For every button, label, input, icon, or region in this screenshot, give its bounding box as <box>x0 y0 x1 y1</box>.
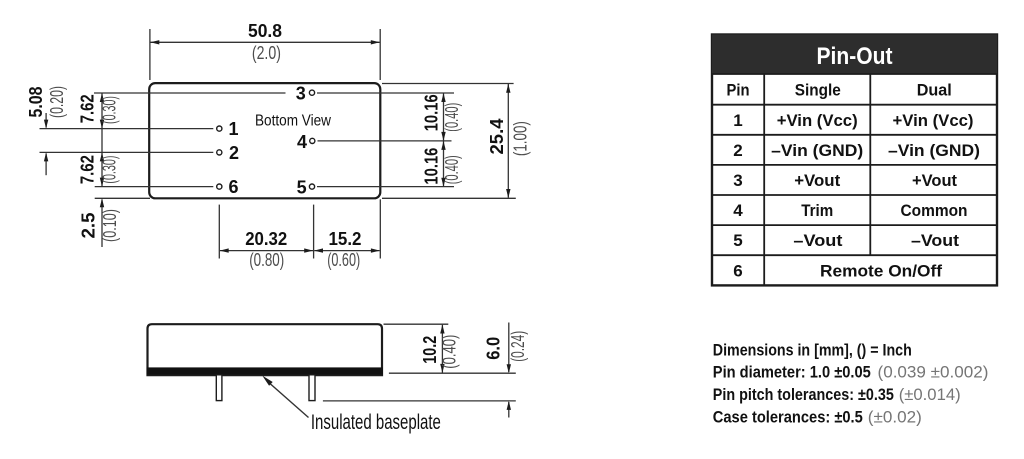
dim 20.32 extension line left <box>218 205 220 259</box>
dim 6.0 upper tail <box>508 323 510 373</box>
dim 15.2 extension line right <box>379 199 381 258</box>
dim 10.16 upper line <box>443 93 445 141</box>
svg-text:–Vin (GND): –Vin (GND) <box>888 141 980 160</box>
pin 2 hole <box>217 150 222 155</box>
pin 4 hole <box>310 138 315 143</box>
svg-text:Remote On/Off: Remote On/Off <box>820 261 942 280</box>
svg-text:Dual: Dual <box>917 80 952 99</box>
svg-text:4: 4 <box>297 132 307 152</box>
baseplate bottom extension line <box>389 372 516 374</box>
svg-text:Single: Single <box>795 80 841 99</box>
svg-text:25.4: 25.4 <box>487 119 507 155</box>
dim 20.32 line <box>220 250 313 252</box>
svg-text:50.8: 50.8 <box>248 21 282 41</box>
dim 15.2 line <box>314 250 380 252</box>
svg-text:–Vin (GND): –Vin (GND) <box>771 141 863 160</box>
case outline (side view) <box>148 324 383 375</box>
svg-text:1: 1 <box>228 119 238 139</box>
table column divider 1 <box>763 74 765 285</box>
pin left (side view) <box>216 375 222 401</box>
svg-text:+Vout: +Vout <box>912 171 957 190</box>
dim 5.08 line upper tail <box>45 113 47 128</box>
dim 50.8 extension line left <box>149 29 151 80</box>
table column divider 2 <box>869 74 871 255</box>
dim 5.08 line lower tail <box>45 154 47 176</box>
svg-text:5: 5 <box>733 231 742 250</box>
svg-text:Common: Common <box>901 201 968 220</box>
svg-text:Pin diameter: 1.0 ±0.05: Pin diameter: 1.0 ±0.05 <box>713 363 871 382</box>
table row line 3 <box>712 164 997 166</box>
svg-text:(0.60): (0.60) <box>327 250 360 270</box>
dim 7.62 lower line <box>101 152 103 186</box>
svg-text:6: 6 <box>733 261 742 280</box>
svg-text:10.16: 10.16 <box>422 94 442 131</box>
svg-text:2: 2 <box>229 143 239 163</box>
svg-text:(0.40): (0.40) <box>442 103 462 132</box>
svg-text:+Vout: +Vout <box>794 171 840 190</box>
pin 3 row line <box>94 92 286 94</box>
dim 25.4 extension line bottom <box>382 197 516 199</box>
dim 25.4 extension line top <box>382 83 514 85</box>
bottom edge extension line left <box>95 197 150 199</box>
svg-text:6: 6 <box>228 177 238 197</box>
svg-text:(1.00): (1.00) <box>511 121 531 156</box>
svg-text:Pin pitch tolerances: ±0.35: Pin pitch tolerances: ±0.35 <box>713 385 894 404</box>
pin 1 hole <box>217 126 222 131</box>
svg-text:(0.24): (0.24) <box>508 331 528 362</box>
svg-text:3: 3 <box>733 171 742 190</box>
dim 10.2 extension line top <box>384 323 449 325</box>
svg-text:5.08: 5.08 <box>26 87 46 118</box>
pin 5 hole <box>309 184 314 189</box>
svg-text:Insulated baseplate: Insulated baseplate <box>311 411 441 434</box>
dim line between pins 1 and 2 <box>101 129 103 153</box>
svg-text:(0.10): (0.10) <box>100 209 120 242</box>
svg-text:Dimensions in [mm], () = Inch: Dimensions in [mm], () = Inch <box>713 341 912 360</box>
dim 25.4 line <box>507 84 509 198</box>
pin right (side view) <box>309 375 315 401</box>
svg-text:Bottom View: Bottom View <box>255 113 331 130</box>
svg-text:1: 1 <box>733 111 742 130</box>
svg-text:2.5: 2.5 <box>79 213 99 239</box>
dim 10.16 lower line <box>443 141 445 187</box>
svg-text:(0.30): (0.30) <box>100 156 120 184</box>
pin 4 row line <box>318 140 452 142</box>
svg-text:5: 5 <box>297 177 307 197</box>
table row line header <box>712 73 997 75</box>
pin 3 hole <box>309 90 314 95</box>
table row line 5 <box>712 224 997 226</box>
svg-text:–Vout: –Vout <box>911 231 959 250</box>
table row line 2 <box>712 134 997 136</box>
svg-text:+Vin (Vcc): +Vin (Vcc) <box>893 111 974 130</box>
svg-text:(0.40): (0.40) <box>440 335 460 369</box>
svg-text:7.62: 7.62 <box>78 94 98 123</box>
svg-text:4: 4 <box>733 201 743 220</box>
svg-text:10.2: 10.2 <box>420 336 440 364</box>
svg-text:(0.30): (0.30) <box>100 96 120 124</box>
svg-text:Pin-Out: Pin-Out <box>817 43 893 70</box>
svg-text:7.62: 7.62 <box>78 155 98 184</box>
svg-text:(±0.014): (±0.014) <box>899 385 961 404</box>
dim 10.2 line <box>441 325 443 373</box>
svg-text:–Vout: –Vout <box>793 231 842 250</box>
svg-text:Trim: Trim <box>801 201 833 220</box>
insulated baseplate bar <box>147 367 384 374</box>
pin 2 row line <box>40 151 214 153</box>
dim 20.32/15.2 extension line middle <box>313 205 315 259</box>
svg-text:6.0: 6.0 <box>483 337 503 360</box>
table row line 4 <box>712 194 997 196</box>
svg-text:15.2: 15.2 <box>329 229 362 249</box>
pin 5 row line <box>317 186 454 188</box>
pin-out table header bar <box>712 35 997 75</box>
svg-text:(0.20): (0.20) <box>47 86 67 118</box>
svg-text:Pin: Pin <box>727 80 750 99</box>
baseplate leader line <box>267 381 309 418</box>
svg-text:3: 3 <box>296 84 306 104</box>
svg-text:(0.039 ±0.002): (0.039 ±0.002) <box>878 363 989 382</box>
table row line 1 <box>712 104 997 106</box>
svg-text:10.16: 10.16 <box>422 148 442 185</box>
dim 50.8 extension line right <box>379 29 381 80</box>
svg-text:2: 2 <box>733 141 742 160</box>
pin tip extension line <box>323 400 516 402</box>
svg-text:(±0.02): (±0.02) <box>868 408 922 427</box>
package outline (bottom view) <box>149 83 380 198</box>
svg-text:+Vin (Vcc): +Vin (Vcc) <box>777 111 858 130</box>
dim 6.0 lower tail <box>508 402 510 418</box>
pin-out table outer border <box>712 35 997 286</box>
svg-text:(0.40): (0.40) <box>442 155 462 184</box>
svg-text:(0.80): (0.80) <box>249 250 284 270</box>
svg-text:20.32: 20.32 <box>245 229 287 249</box>
dim 50.8 line <box>151 41 380 43</box>
dim 2.5 line tail <box>101 200 103 248</box>
table row line 6 <box>712 254 997 256</box>
svg-text:(2.0): (2.0) <box>252 43 281 63</box>
svg-text:Case tolerances: ±0.5: Case tolerances: ±0.5 <box>713 408 863 427</box>
pin 1 row line <box>40 128 214 130</box>
pin 6 hole <box>217 184 222 189</box>
dim 7.62 upper line <box>101 93 103 129</box>
pin 6 row line <box>95 186 214 188</box>
